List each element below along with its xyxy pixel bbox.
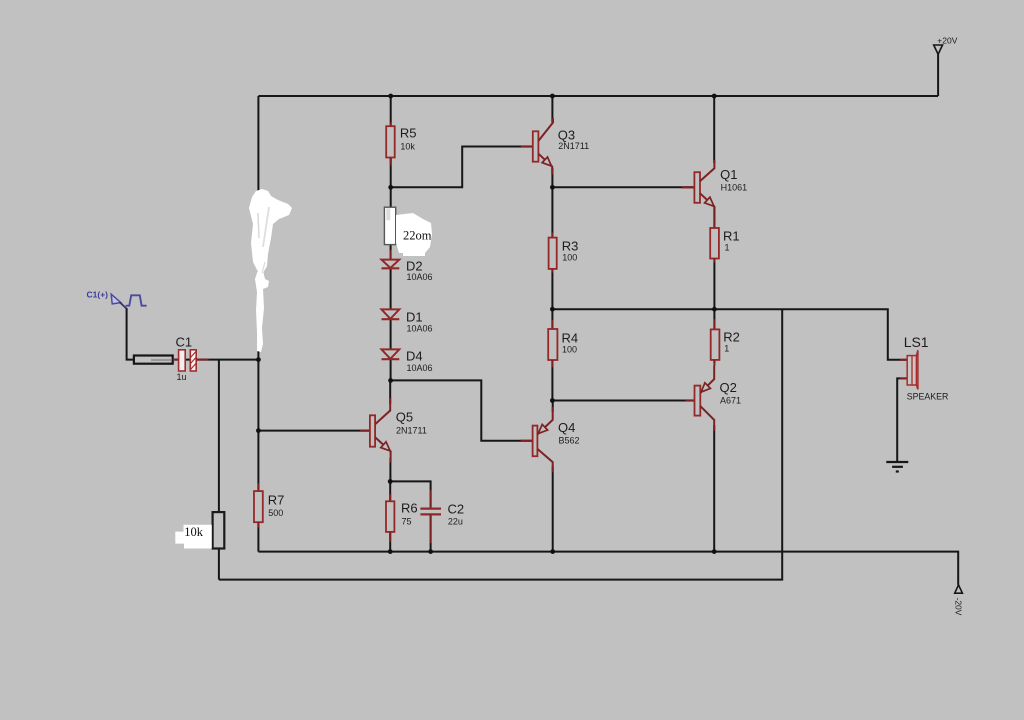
capacitor C1 1u polarized — [173, 335, 209, 383]
junction node R1 bottom output — [712, 307, 717, 312]
resistor R6 75 — [386, 494, 418, 542]
junction node Q2 rail — [712, 549, 717, 554]
svg-text:10k: 10k — [400, 142, 415, 152]
junction node C2 rail — [428, 549, 433, 554]
junction node Q4 rail — [550, 549, 555, 554]
speaker LS1 — [900, 334, 948, 402]
junction node Q5 base tee — [256, 428, 261, 433]
wire Q3 collector to rail — [551, 96, 553, 123]
svg-text:C1(+): C1(+) — [87, 289, 109, 299]
svg-text:10A06: 10A06 — [407, 272, 433, 282]
svg-text:1u: 1u — [177, 372, 187, 382]
wire Q3 emitter to Q1 base — [552, 186, 694, 188]
wire C2 branch — [390, 481, 430, 508]
diode D2 10A06 — [382, 250, 433, 282]
wire Q1 collector to rail — [713, 96, 715, 163]
svg-text:+20V: +20V — [937, 36, 957, 46]
resistor R1 1 — [710, 210, 739, 263]
svg-text:H1061: H1061 — [721, 182, 748, 192]
transistor Q2 A671 — [686, 366, 741, 431]
svg-text:B562: B562 — [559, 435, 580, 445]
svg-text:C2: C2 — [448, 502, 465, 517]
wire Q2 collector to rail — [713, 425, 715, 552]
wire R5 column top — [390, 96, 392, 126]
svg-text:10A06: 10A06 — [407, 324, 433, 334]
capacitor C2 22u — [420, 490, 464, 543]
transistor Q3 2N1711 — [521, 118, 589, 175]
svg-text:500: 500 — [268, 508, 283, 518]
wire Q4 node to Q2 base — [552, 400, 694, 402]
junction node R3 bottom output — [550, 307, 555, 312]
svg-text:R2: R2 — [723, 329, 740, 344]
wire Q4 collector to rail — [552, 466, 554, 552]
resistor 10k (black, hand-labelled) — [213, 512, 225, 548]
resistor 22om (whited-out body) — [384, 207, 395, 244]
junction node R5 bottom — [388, 185, 393, 190]
svg-text:1: 1 — [725, 243, 730, 253]
svg-text:R3: R3 — [562, 239, 579, 254]
junction node R6 top — [388, 479, 393, 484]
transistor Q4 B562 — [521, 407, 580, 472]
svg-text:R5: R5 — [400, 126, 417, 141]
whiteout patch and hand label 22om — [396, 213, 432, 256]
resistor R3 100 — [549, 233, 579, 273]
resistor R7 500 — [254, 483, 284, 527]
transistor Q1 H1061 — [682, 160, 747, 212]
diode D1 10A06 — [382, 309, 433, 333]
wire node A down through R7 to -20V rail — [257, 360, 259, 552]
wire R6 node to rail — [389, 481, 391, 551]
svg-text:D4: D4 — [406, 348, 423, 363]
svg-text:1: 1 — [724, 344, 729, 354]
resistor R4 100 — [548, 320, 578, 367]
ground — [886, 462, 908, 472]
whiteout patch and hand label 10k — [175, 525, 212, 549]
svg-text:2N1711: 2N1711 — [396, 425, 427, 435]
wire Q4 emitter stub — [552, 401, 554, 413]
wire diode chain — [390, 245, 392, 381]
wire Q5 emitter down to R6 node — [389, 458, 391, 481]
svg-text:D1: D1 — [406, 309, 423, 324]
wire output line — [552, 309, 907, 360]
svg-text:LS1: LS1 — [904, 334, 929, 350]
wire Q5 collector up — [389, 380, 391, 404]
wire -20V rail — [258, 552, 958, 585]
junction node D4 bottom — [388, 378, 393, 383]
junction node top Q1 — [712, 94, 717, 99]
wire feedback rail bottom — [219, 309, 782, 579]
svg-text:22u: 22u — [448, 517, 463, 527]
svg-text:75: 75 — [402, 517, 412, 527]
wire R5 to 22om resistor — [390, 158, 392, 208]
junction node A C1 output — [256, 357, 261, 362]
wire +20V drop — [937, 54, 939, 96]
wire Q5 base from node — [258, 430, 370, 432]
svg-text:100: 100 — [562, 344, 577, 354]
svg-text:Q2: Q2 — [720, 380, 737, 395]
wire Q3 emitter node — [551, 168, 553, 309]
svg-text:SPEAKER: SPEAKER — [907, 392, 949, 402]
junction node R4 bottom — [550, 398, 555, 403]
wire 10k branch down — [218, 360, 220, 580]
wire D4 node to Q4 base — [391, 380, 533, 440]
wire top +20V rail — [258, 95, 938, 97]
wire Q1 emitter through R1 R2 — [713, 207, 715, 363]
junction node Q3 emitter — [550, 185, 555, 190]
svg-text:10k: 10k — [184, 525, 204, 539]
wire left column from rail to node A — [257, 96, 259, 360]
power terminal +20V — [934, 36, 958, 55]
fuse / input connector rectangle — [134, 356, 173, 364]
svg-text:2N1711: 2N1711 — [558, 141, 589, 151]
svg-text:Q4: Q4 — [558, 420, 575, 435]
svg-text:R1: R1 — [723, 229, 740, 244]
svg-text:A671: A671 — [720, 395, 741, 405]
transistor Q5 2N1711 — [360, 398, 427, 463]
power terminal -20V — [954, 585, 964, 616]
whiteout correction streak over left wire — [249, 189, 292, 352]
wire C2 to rail — [430, 514, 432, 551]
svg-text:Q1: Q1 — [720, 167, 737, 182]
svg-text:10A06: 10A06 — [407, 363, 433, 373]
diode D4 10A06 — [382, 348, 433, 373]
wire input probe drop — [127, 308, 259, 360]
svg-text:100: 100 — [562, 253, 577, 263]
junction node R6 rail — [388, 549, 393, 554]
resistor R5 10k — [386, 122, 416, 166]
svg-text:-20V: -20V — [954, 598, 964, 616]
junction node top R5 — [388, 94, 393, 99]
input probe C1(+) — [87, 289, 147, 308]
svg-text:Q5: Q5 — [396, 410, 413, 425]
svg-text:C1: C1 — [176, 335, 193, 350]
svg-text:R6: R6 — [401, 501, 418, 516]
resistor R2 1 — [711, 319, 740, 366]
junction node top Q3 — [550, 94, 555, 99]
svg-text:22om: 22om — [403, 229, 432, 243]
wire speaker bottom to ground — [897, 378, 907, 461]
svg-text:R7: R7 — [268, 493, 285, 508]
wire R5 junction to Q3 base — [391, 147, 533, 188]
wire R4 to Q4 node — [551, 309, 553, 400]
